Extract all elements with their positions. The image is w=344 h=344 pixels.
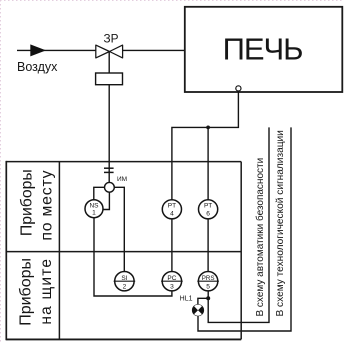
instrument PT 6	[199, 200, 218, 219]
svg-text:PT: PT	[168, 203, 176, 210]
lamp HL1	[193, 305, 204, 316]
table band right border	[240, 162, 242, 340]
wire valve stem	[108, 52, 110, 74]
wire to signal circuit	[198, 127, 291, 331]
wire NS bottom to PC bottom	[94, 218, 172, 296]
wire PT6 to PRS	[207, 219, 209, 272]
svg-text:ПЕЧЬ: ПЕЧЬ	[223, 32, 303, 67]
wire PT4 to PC	[171, 219, 173, 272]
actuator circle ИМ	[105, 182, 115, 192]
svg-text:2: 2	[123, 284, 127, 291]
wire air supply line	[17, 49, 96, 51]
svg-text:В схему автоматики безопасност: В схему автоматики безопасности	[254, 158, 266, 317]
instrument PC 3	[162, 272, 181, 291]
svg-text:В схему технологической сигнал: В схему технологической сигнализации	[275, 130, 286, 316]
table label column divider	[58, 162, 60, 340]
table band bottom border	[6, 338, 241, 340]
svg-text:NS: NS	[89, 202, 99, 209]
junction dot	[206, 126, 210, 130]
wire positioner down	[108, 85, 110, 183]
wire lamp stub	[198, 298, 207, 304]
svg-text:3: 3	[170, 284, 174, 291]
svg-text:PRS: PRS	[202, 275, 215, 282]
svg-text:4: 4	[170, 210, 174, 217]
svg-text:Воздух: Воздух	[17, 60, 58, 74]
valve ZR body	[96, 45, 123, 58]
node on furnace (takeoff point)	[236, 86, 241, 91]
table band top border	[6, 161, 241, 163]
wire branch to PT6	[207, 127, 209, 199]
svg-text:5: 5	[206, 284, 210, 291]
svg-text:по месту: по месту	[39, 170, 56, 241]
actuator membrane bars	[104, 167, 114, 169]
svg-text:ЗР: ЗР	[104, 32, 119, 46]
wire IM bottom loop to NS right	[103, 192, 109, 209]
flow arrow	[30, 44, 46, 56]
wire IM left to NS	[94, 187, 105, 200]
furnace box ПЕЧЬ	[185, 7, 342, 92]
instrument PRS 5	[198, 272, 217, 291]
svg-text:PC: PC	[167, 275, 176, 282]
instrument NS 1	[85, 200, 103, 218]
positioner box	[96, 73, 123, 85]
svg-text:Приборы: Приборы	[19, 169, 36, 236]
table left border	[5, 161, 7, 340]
svg-text:PT: PT	[204, 203, 212, 210]
svg-text:HL1: HL1	[180, 296, 193, 303]
svg-text:6: 6	[206, 210, 210, 217]
wire IM right down to SI	[114, 187, 124, 271]
wire valve to furnace	[123, 49, 185, 51]
svg-text:ИМ: ИМ	[117, 176, 127, 183]
svg-text:Приборы: Приборы	[18, 258, 35, 326]
wire to safety circuit	[208, 127, 269, 322]
instrument PT 4	[162, 200, 181, 219]
wire PRS to junction	[207, 291, 209, 297]
wire furnace node down and left	[172, 91, 239, 200]
svg-text:на щите: на щите	[38, 258, 55, 325]
svg-text:SI: SI	[121, 275, 127, 282]
svg-text:1: 1	[92, 210, 96, 217]
table band divider	[6, 251, 241, 253]
junction dot HL	[206, 296, 210, 300]
instrument SI 2	[115, 272, 134, 291]
